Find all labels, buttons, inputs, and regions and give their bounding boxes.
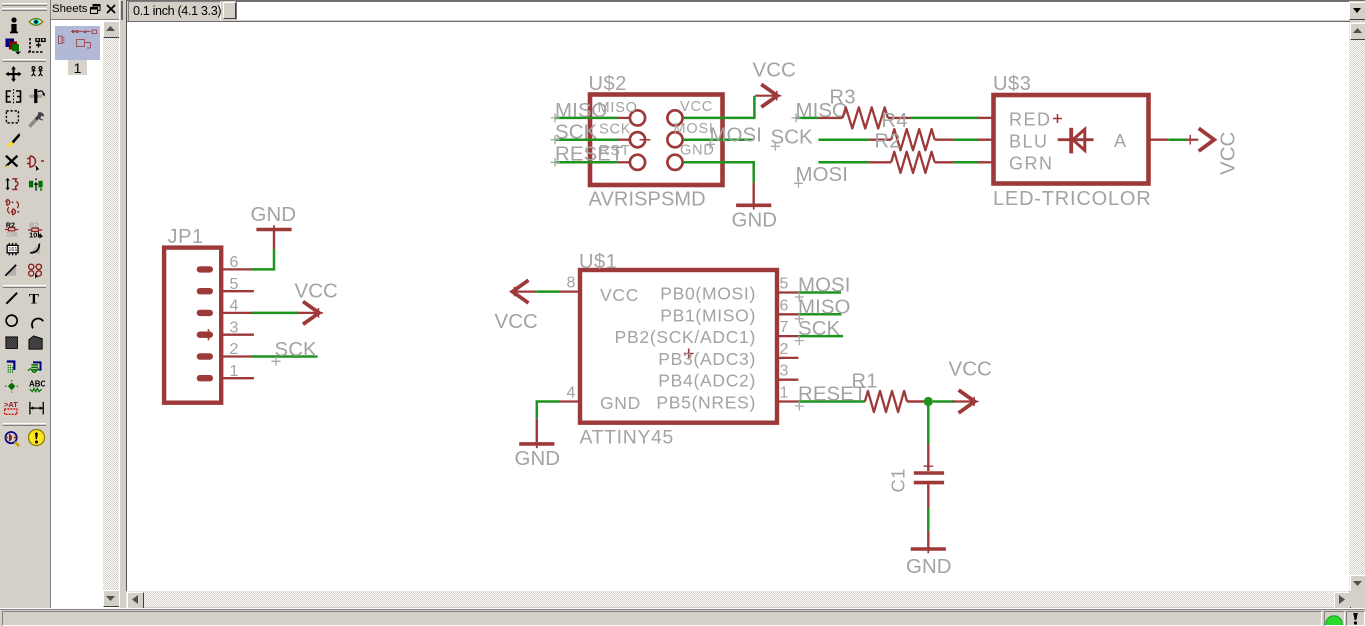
net label MOSI (right of U$2)	[706, 125, 762, 149]
net label MISO (R3 row)	[796, 100, 849, 122]
U$1 pin 5 lead	[779, 276, 798, 293]
svg-text:161: 161	[8, 247, 17, 253]
list area	[50, 19, 120, 608]
R2 name label	[875, 131, 901, 153]
wire R2 to LED GRN	[954, 161, 979, 164]
svg-text:SCK: SCK	[798, 318, 841, 340]
U$2 origin cross	[640, 138, 651, 142]
sheet number	[68, 60, 87, 75]
svg-text:MOSI: MOSI	[674, 121, 714, 137]
net label SCK (U$1)	[798, 318, 841, 340]
R1 name label	[852, 371, 878, 393]
svg-text:7: 7	[780, 319, 789, 336]
U$2 pin name RST	[599, 143, 630, 159]
svg-text:PB1(MISO): PB1(MISO)	[660, 305, 756, 325]
VCC label (above U$2)	[753, 60, 796, 82]
ground GND (below U$2)	[736, 183, 771, 210]
svg-text:8: 8	[567, 275, 576, 292]
svg-text:VCC: VCC	[495, 311, 538, 333]
U$3 name label	[993, 73, 1032, 95]
svg-text:ATTINY45: ATTINY45	[580, 427, 674, 449]
wire junction to VCC	[933, 400, 955, 403]
svg-text:RESET: RESET	[555, 144, 623, 166]
wire JP1 pin6 to ground	[252, 249, 274, 270]
U$3 pin name BLU	[1009, 132, 1049, 152]
svg-text:SCK: SCK	[555, 122, 598, 144]
wire U$2 VCC pin to supply	[683, 96, 754, 118]
wire net SCK (U$1)	[795, 336, 843, 345]
resistor R1	[865, 391, 925, 412]
wire U$2 GND pin to ground	[683, 162, 754, 183]
net label SCK (start of R4 row)	[771, 127, 814, 151]
R4 name label	[882, 110, 908, 132]
C1 name label (vertical)	[889, 468, 909, 492]
ground GND (above JP1, flipped)	[256, 225, 291, 249]
svg-text:R1: R1	[852, 371, 878, 393]
svg-text:6: 6	[230, 254, 239, 271]
U$1 pin label PB2(SCK/ADC1)	[615, 327, 756, 347]
JP1 pin 2	[221, 341, 254, 358]
canvas v-scrollbar	[1349, 22, 1365, 591]
wire net MISO into U$2	[555, 117, 618, 120]
wire MOSI row left segment	[818, 161, 868, 164]
svg-text:4: 4	[230, 298, 239, 315]
wire net MISO (U$1)	[795, 314, 842, 323]
U$1 value ATTINY45	[580, 427, 674, 449]
U$1 pin label PB1(MISO)	[660, 305, 756, 325]
svg-text:>AT: >AT	[4, 401, 18, 409]
svg-text:GND: GND	[600, 393, 641, 413]
net label MISO (U$2 left)	[551, 100, 608, 122]
svg-text:1: 1	[230, 363, 239, 380]
wire SCK row left segment	[818, 138, 868, 141]
JP1 pin 5	[221, 276, 254, 293]
svg-text:PB5(NRES): PB5(NRES)	[656, 393, 756, 413]
U$2 pin pads (6 circles)	[630, 110, 683, 170]
U$3 pin name RED	[1009, 110, 1052, 130]
svg-text:AVRISPSMD: AVRISPSMD	[589, 189, 706, 211]
JP1 pin pads	[197, 266, 213, 381]
svg-text:PB3(ADC3): PB3(ADC3)	[658, 349, 756, 369]
JP1 pin 1	[221, 363, 254, 380]
wire net SCK into U$2	[555, 138, 618, 141]
svg-text:2: 2	[230, 341, 239, 358]
U$2 name label	[589, 73, 628, 95]
net label MOSI (R2 row)	[794, 164, 848, 188]
wire JP1 pin2 SCK	[252, 355, 317, 358]
thumbnail	[55, 26, 100, 60]
connector JP1 box	[164, 248, 221, 403]
svg-text:GND: GND	[251, 204, 297, 226]
JP1 pin 6	[221, 254, 254, 271]
ground GND (below U$1)	[519, 419, 554, 448]
U$1 pin label PB0(MOSI)	[660, 284, 756, 304]
U$2 pin name SCK	[599, 122, 631, 138]
svg-text:R3: R3	[830, 87, 856, 109]
svg-text:LED-TRICOLOR: LED-TRICOLOR	[993, 188, 1152, 210]
R3 name label	[830, 87, 856, 109]
U$3 anode pin lead	[1151, 138, 1169, 140]
supply VCC (right of U$3)	[1186, 128, 1215, 151]
wire C1 to ground	[927, 508, 930, 530]
svg-text:6: 6	[780, 297, 789, 314]
wire junction down to C1	[927, 406, 930, 444]
U$2 value AVRISPSMD	[589, 189, 706, 211]
svg-text:3: 3	[780, 363, 789, 380]
U$1 pin label VCC	[600, 285, 639, 305]
net label SCK (JP1)	[272, 339, 318, 366]
net label MOSI (U$1)	[798, 275, 851, 297]
svg-text:3: 3	[230, 319, 239, 336]
svg-text:PB4(ADC2): PB4(ADC2)	[658, 371, 756, 391]
svg-text:PB2(SCK/ADC1): PB2(SCK/ADC1)	[615, 327, 756, 347]
VCC label (right of U$3, vertical)	[1218, 132, 1240, 175]
svg-text:5: 5	[780, 276, 789, 293]
svg-text:R4: R4	[882, 110, 908, 132]
VCC label (right of R1)	[949, 359, 992, 381]
svg-text:10k: 10k	[6, 231, 18, 238]
svg-text:JP1: JP1	[168, 226, 204, 248]
U$1 pin 3 lead	[779, 363, 798, 380]
svg-text:U$1: U$1	[579, 251, 618, 273]
wire net RESET into U$2	[555, 161, 618, 164]
U$1 pin 6 lead	[779, 297, 798, 314]
resistor R4	[869, 129, 955, 150]
capacitor C1	[914, 444, 944, 508]
svg-text:VCC: VCC	[600, 285, 639, 305]
svg-text:VCC: VCC	[1218, 132, 1240, 175]
svg-text:GND: GND	[515, 448, 561, 470]
U$3 value LED-TRICOLOR	[993, 188, 1152, 210]
U$1 pin 4 lead	[560, 385, 579, 402]
U$2 pin name MISO	[598, 100, 638, 116]
corner	[1349, 591, 1365, 607]
U$2 pin name VCC	[680, 99, 713, 115]
wire net RESET (U$1)	[795, 402, 865, 411]
svg-text:VCC: VCC	[949, 359, 992, 381]
ground GND (below C1)	[911, 531, 946, 554]
U$1 pin label PB3(ADC3)	[658, 349, 756, 369]
supply VCC (JP1 pin4)	[297, 302, 323, 325]
svg-text:MISO: MISO	[555, 100, 608, 122]
svg-text:MISO: MISO	[798, 296, 851, 318]
supply VCC (left of U$1)	[510, 280, 536, 303]
svg-text:GND: GND	[906, 556, 952, 578]
sheets scrollbar	[103, 21, 119, 606]
GND label (above JP1)	[251, 204, 297, 226]
svg-text:MOSI: MOSI	[798, 275, 851, 297]
svg-text:R2: R2	[875, 131, 901, 153]
svg-text:T: T	[29, 291, 39, 307]
diode symbol inside U$3	[1058, 128, 1094, 154]
svg-text:C1: C1	[889, 468, 909, 492]
wire pin8 to VCC	[536, 290, 559, 293]
svg-text:PB0(MOSI): PB0(MOSI)	[660, 284, 756, 304]
resistor R3	[818, 107, 910, 128]
supply VCC (above U$2)	[755, 84, 781, 107]
U$2 left pin leads	[618, 118, 630, 162]
svg-text:BLU: BLU	[1009, 132, 1049, 152]
wire JP1 pin4 to VCC	[252, 312, 299, 315]
svg-text:SCK: SCK	[275, 339, 318, 361]
svg-text:MOSI: MOSI	[796, 164, 849, 186]
wire anode to VCC	[1168, 138, 1187, 141]
svg-text:VCC: VCC	[753, 60, 796, 82]
net label MISO (U$1)	[798, 296, 851, 318]
microcontroller U$1 box	[580, 270, 777, 423]
GND label (below C1)	[906, 556, 952, 578]
wire R4 to LED BLU	[954, 138, 979, 141]
close X icon	[106, 4, 116, 14]
U$1 pin 8 lead	[560, 275, 579, 292]
U$1 pin 7 lead	[779, 319, 798, 336]
JP1 origin cross	[204, 329, 213, 340]
junction node (R1/VCC/C1)	[924, 397, 933, 406]
U$1 name label	[579, 251, 618, 273]
svg-text:1: 1	[780, 385, 789, 402]
JP1 name label	[168, 226, 204, 248]
restore button icon	[90, 4, 101, 14]
wire MISO row left segment	[792, 113, 819, 122]
U$3 origin cross	[1053, 114, 1062, 123]
svg-text:RED: RED	[1009, 110, 1052, 130]
net label SCK (U$2 left)	[551, 122, 598, 145]
ISP header U$2 box	[590, 95, 723, 186]
net label RESET (U$2 left)	[551, 144, 624, 167]
U$3 pin name A	[1114, 131, 1126, 151]
wire net MOSI (U$1)	[795, 293, 841, 302]
svg-text:GND: GND	[732, 210, 778, 232]
net label RESET (U$1)	[798, 384, 866, 406]
U$3 left pin leads	[978, 118, 992, 162]
splitter	[119, 0, 127, 608]
supply VCC (right of R1)	[953, 390, 979, 413]
wire U$2 MOSI pin stub	[683, 138, 754, 141]
VCC label (JP1)	[295, 281, 338, 303]
svg-text:5: 5	[230, 276, 239, 293]
svg-text:VCC: VCC	[680, 99, 713, 115]
JP1 pin 3	[221, 319, 254, 336]
svg-text:SCK: SCK	[599, 122, 631, 138]
canvas h-scrollbar	[126, 591, 1349, 607]
U$2 pin name MOSI	[674, 121, 714, 137]
svg-text:GRN: GRN	[1009, 154, 1054, 174]
JP1 pin 4	[221, 298, 254, 315]
wire pin4 to ground	[537, 402, 560, 419]
U$3 pin name GRN	[1009, 154, 1054, 174]
U$2 pin name GND	[680, 143, 715, 159]
svg-text:ABC: ABC	[29, 380, 45, 389]
svg-text:U$3: U$3	[993, 73, 1032, 95]
U$1 pin label PB5(NRES)	[656, 393, 756, 413]
svg-text:SCK: SCK	[771, 127, 814, 149]
LED U$3 box	[994, 95, 1149, 184]
U$1 pin label GND	[600, 393, 641, 413]
svg-text:MOSI: MOSI	[710, 125, 763, 147]
svg-text:VCC: VCC	[295, 281, 338, 303]
U$1 pin 1 lead	[779, 385, 798, 402]
U$1 origin cross	[684, 349, 694, 359]
U$1 pin label PB4(ADC2)	[658, 371, 756, 391]
U$1 pin 2 lead	[779, 341, 798, 358]
svg-text:2: 2	[780, 341, 789, 358]
resistor R2	[869, 152, 955, 173]
svg-text:4: 4	[567, 385, 576, 402]
VCC label (left of U$1)	[495, 311, 538, 333]
GND label (below U$2)	[732, 210, 778, 232]
svg-text:U$2: U$2	[589, 73, 628, 95]
svg-text:A: A	[1114, 131, 1126, 151]
wire R3 to LED RED	[911, 117, 980, 120]
GND label (below U$1)	[515, 448, 561, 470]
